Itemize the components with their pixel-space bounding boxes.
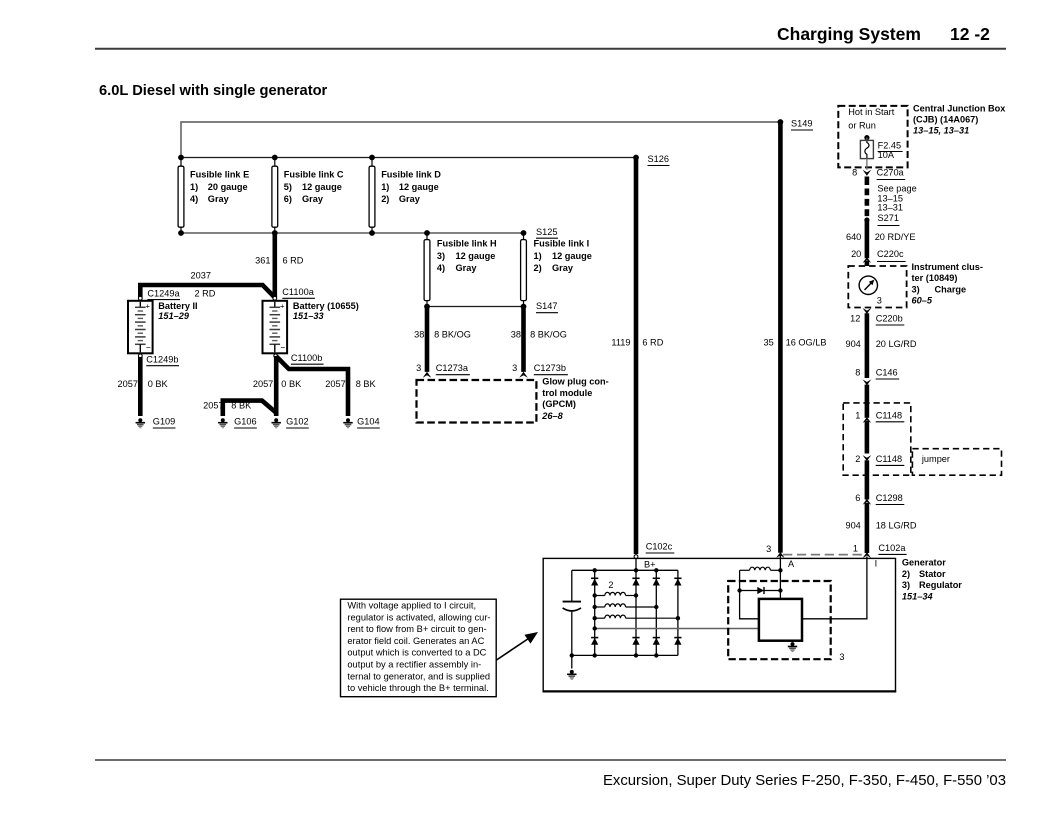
svg-text:C1249a: C1249a xyxy=(147,289,180,299)
jumper box xyxy=(912,449,1001,476)
svg-text:2057: 2057 xyxy=(118,379,138,389)
svg-text:Stator: Stator xyxy=(919,569,946,579)
svg-text:13–15, 13–31: 13–15, 13–31 xyxy=(913,126,969,136)
fusible link E xyxy=(178,160,249,234)
svg-text:C1273a: C1273a xyxy=(436,363,469,373)
wire rectifier bottom bus xyxy=(572,654,678,656)
svg-text:151–34: 151–34 xyxy=(902,591,933,601)
svg-text:output by a rectifier assembly: output by a rectifier assembly in- xyxy=(347,660,481,670)
wire stator to regulator (grey) xyxy=(595,628,759,630)
svg-text:Fusible link H: Fusible link H xyxy=(437,239,497,249)
fuse F2.45 xyxy=(860,135,902,170)
svg-text:C102a: C102a xyxy=(878,543,906,553)
svg-text:regulator is activated, allowi: regulator is activated, allowing cur- xyxy=(347,612,490,622)
wire 2037 2 RD xyxy=(140,285,274,298)
svg-text:F2.45: F2.45 xyxy=(878,141,902,151)
rectifier column 1 xyxy=(591,570,598,655)
ground G109 xyxy=(136,417,176,428)
svg-text:rent to flow from B+ circuit t: rent to flow from B+ circuit to gen- xyxy=(347,624,486,634)
svg-text:output which is converted to a: output which is converted to a DC xyxy=(347,648,486,658)
svg-text:With voltage applied to I circ: With voltage applied to I circuit, xyxy=(347,601,476,611)
svg-text:8 BK/OG: 8 BK/OG xyxy=(434,329,471,339)
wire: bus to S125 xyxy=(181,232,524,234)
svg-text:3): 3) xyxy=(912,284,920,294)
svg-text:8: 8 xyxy=(852,167,857,177)
svg-text:3): 3) xyxy=(902,580,910,590)
svg-text:38: 38 xyxy=(414,329,424,339)
svg-text:Fusible link I: Fusible link I xyxy=(534,239,590,249)
svg-text:Battery II: Battery II xyxy=(158,301,197,311)
wire dashed off-page to S271 xyxy=(865,177,870,186)
svg-text:151–29: 151–29 xyxy=(158,311,190,321)
wire S147 to C1273a xyxy=(425,307,430,372)
svg-text:3: 3 xyxy=(877,296,882,306)
svg-text:1): 1) xyxy=(381,182,389,192)
svg-text:or Run: or Run xyxy=(848,120,876,130)
wire dashed grey C102a tie xyxy=(783,554,865,556)
rectifier column 4 xyxy=(674,570,681,655)
svg-text:Central Junction Box: Central Junction Box xyxy=(913,103,1006,113)
svg-text:20 RD/YE: 20 RD/YE xyxy=(875,232,916,242)
svg-text:2): 2) xyxy=(381,194,389,204)
svg-text:trol module: trol module xyxy=(542,388,592,398)
connector C1148 pin 2 xyxy=(855,454,904,466)
svg-text:2: 2 xyxy=(608,580,613,590)
svg-text:2: 2 xyxy=(855,454,860,464)
svg-text:16 OG/LB: 16 OG/LB xyxy=(786,338,827,348)
svg-text:12 gauge: 12 gauge xyxy=(399,182,439,192)
wire: bus H-I to S147 xyxy=(427,306,524,308)
fusible link I xyxy=(521,233,592,307)
svg-text:S126: S126 xyxy=(648,154,669,164)
svg-text:1): 1) xyxy=(190,182,198,192)
svg-text:640: 640 xyxy=(846,232,861,242)
connector C1273a xyxy=(416,363,470,378)
svg-text:8 BK: 8 BK xyxy=(356,379,377,389)
svg-text:S271: S271 xyxy=(878,213,899,223)
svg-text:A: A xyxy=(788,559,795,569)
svg-text:0 BK: 0 BK xyxy=(281,379,302,389)
svg-text:C1298: C1298 xyxy=(876,493,903,503)
svg-text:5): 5) xyxy=(284,182,292,192)
connector C102a pin 1 xyxy=(853,543,907,558)
svg-text:Fusible link D: Fusible link D xyxy=(381,170,441,180)
node S147 xyxy=(521,301,558,313)
svg-text:12 -2: 12 -2 xyxy=(950,24,990,44)
wire 2057 0 BK center xyxy=(274,356,279,416)
svg-text:26–8: 26–8 xyxy=(541,411,563,421)
wire 2057 8 BK right branch xyxy=(276,356,348,416)
svg-text:2 RD: 2 RD xyxy=(195,289,216,299)
ground regulator xyxy=(788,642,797,651)
connector C1298 xyxy=(855,493,904,505)
ground G104 xyxy=(343,417,380,428)
generator labels xyxy=(902,558,962,602)
svg-text:8: 8 xyxy=(855,368,860,378)
connector C1273b xyxy=(512,363,568,378)
svg-text:3: 3 xyxy=(416,363,421,373)
junction dots rectifier xyxy=(570,568,681,658)
node D bottom xyxy=(369,230,375,236)
wire field coil left leg xyxy=(740,570,759,619)
connector C102c xyxy=(634,542,674,559)
connector C1249a xyxy=(138,289,180,301)
svg-text:1119: 1119 xyxy=(611,338,630,348)
svg-text:Excursion, Super Duty Series F: Excursion, Super Duty Series F-250, F-35… xyxy=(603,773,1006,789)
instrument cluster labels xyxy=(912,262,983,306)
svg-text:8 BK/OG: 8 BK/OG xyxy=(530,329,567,339)
fusible link H xyxy=(424,233,497,307)
svg-text:8 BK: 8 BK xyxy=(231,400,252,410)
header xyxy=(95,24,1006,49)
svg-text:Gray: Gray xyxy=(208,194,230,204)
wire pin1 to pin2 xyxy=(865,421,870,454)
svg-text:2): 2) xyxy=(534,263,542,273)
fusible link D xyxy=(369,160,441,234)
svg-text:361: 361 xyxy=(255,256,270,266)
node S125 xyxy=(521,227,558,238)
svg-text:3): 3) xyxy=(437,251,445,261)
node H top xyxy=(424,230,430,236)
stator coil 1 xyxy=(595,592,636,595)
wire 361 6 RD xyxy=(272,233,277,298)
node C top xyxy=(272,155,278,161)
connector C1100b xyxy=(274,353,324,364)
svg-text:12: 12 xyxy=(850,314,860,324)
connector C1148 pin 1 xyxy=(855,410,904,423)
svg-text:4): 4) xyxy=(190,194,198,204)
svg-text:1): 1) xyxy=(534,251,542,261)
svg-text:151–33: 151–33 xyxy=(293,311,324,321)
generator box xyxy=(543,558,895,691)
wire: top bus S149 xyxy=(181,122,780,158)
connector C220b xyxy=(850,308,904,325)
svg-text:2057: 2057 xyxy=(253,379,273,389)
note arrow xyxy=(497,632,539,660)
svg-text:2037: 2037 xyxy=(191,270,211,280)
regulator block xyxy=(759,599,802,641)
regulator dashed box xyxy=(728,581,831,659)
field coil xyxy=(740,567,783,572)
wire 35 16 OG/LB (S149 to C102a pin3) xyxy=(778,122,783,553)
battery B2 (Battery 10655) xyxy=(263,301,359,354)
wire 640 20 RD/YE xyxy=(865,220,870,258)
wire 2057 0 BK left xyxy=(138,357,143,416)
diode field xyxy=(737,587,782,594)
wire S125 to S147 link I column, then to C1273b xyxy=(521,307,526,372)
svg-text:Hot in Start: Hot in Start xyxy=(848,107,894,117)
wire 2057 8 BK left branch xyxy=(223,401,276,416)
svg-text:35: 35 xyxy=(763,338,773,348)
GPCM box xyxy=(417,376,609,422)
wire cap to internal ground xyxy=(571,655,573,668)
wire: bus to S126 xyxy=(181,157,636,159)
svg-text:3: 3 xyxy=(839,652,844,662)
connector C1100a xyxy=(273,287,315,300)
svg-text:20 gauge: 20 gauge xyxy=(208,182,248,192)
svg-text:Battery (10655): Battery (10655) xyxy=(293,301,359,311)
svg-text:2): 2) xyxy=(902,569,910,579)
svg-text:G106: G106 xyxy=(234,417,256,427)
svg-text:G102: G102 xyxy=(286,417,308,427)
svg-text:Fusible link C: Fusible link C xyxy=(284,170,344,180)
svg-text:B+: B+ xyxy=(644,559,656,569)
C1148 dashed box xyxy=(843,403,911,475)
svg-text:3: 3 xyxy=(766,544,771,554)
node S149 xyxy=(778,119,814,131)
svg-text:C1273b: C1273b xyxy=(534,363,566,373)
svg-text:3: 3 xyxy=(512,363,517,373)
svg-text:C1100a: C1100a xyxy=(282,287,314,297)
svg-text:6 RD: 6 RD xyxy=(283,256,304,266)
connector C270a xyxy=(852,167,905,179)
node S126 xyxy=(633,154,669,166)
svg-text:20: 20 xyxy=(851,249,861,259)
svg-text:C102c: C102c xyxy=(646,542,673,552)
ground generator case xyxy=(567,670,576,679)
svg-text:1: 1 xyxy=(855,410,860,420)
wire pin2 to C1298 xyxy=(865,460,870,499)
svg-text:(GPCM): (GPCM) xyxy=(542,399,576,409)
ground G106 xyxy=(218,417,257,428)
svg-text:0 BK: 0 BK xyxy=(148,379,169,389)
svg-text:Glow plug con-: Glow plug con- xyxy=(542,376,608,386)
wire 1119 6 RD (S126 to C102c) xyxy=(634,158,639,555)
svg-text:12 gauge: 12 gauge xyxy=(552,251,592,261)
svg-text:C1100b: C1100b xyxy=(291,353,323,363)
svg-text:(CJB) (14A067): (CJB) (14A067) xyxy=(913,114,978,124)
wire A drop xyxy=(779,555,781,599)
fusible link C xyxy=(272,160,344,234)
wire rectifier top bus xyxy=(572,569,678,571)
connector C102a pin 3 arrow xyxy=(766,544,785,558)
svg-text:C1249b: C1249b xyxy=(146,355,178,365)
node H bottom xyxy=(424,304,430,310)
svg-text:Instrument clus-: Instrument clus- xyxy=(912,262,983,272)
svg-text:G104: G104 xyxy=(357,417,379,427)
svg-text:C146: C146 xyxy=(876,368,898,378)
rectifier column 3 xyxy=(653,570,660,655)
node D top xyxy=(369,155,375,161)
svg-text:C220c: C220c xyxy=(877,249,904,259)
svg-text:10A: 10A xyxy=(878,150,895,160)
svg-text:60–5: 60–5 xyxy=(912,296,933,306)
svg-text:C1148: C1148 xyxy=(876,454,902,464)
svg-text:2057: 2057 xyxy=(203,400,223,410)
wire pin3 into generator xyxy=(779,554,781,558)
wire C146 to C1148 xyxy=(865,385,870,418)
svg-text:12 gauge: 12 gauge xyxy=(302,182,342,192)
svg-text:G109: G109 xyxy=(153,417,175,427)
svg-text:to vehicle through the B+ term: to vehicle through the B+ terminal. xyxy=(347,683,488,693)
svg-text:Regulator: Regulator xyxy=(919,580,962,590)
svg-text:Gray: Gray xyxy=(399,194,421,204)
CJB labels xyxy=(913,103,1006,135)
svg-text:904: 904 xyxy=(845,521,860,531)
capacitor C xyxy=(563,570,581,655)
stator coil 2 xyxy=(595,604,657,607)
svg-text:S147: S147 xyxy=(536,301,557,311)
svg-text:12 gauge: 12 gauge xyxy=(456,251,496,261)
rectifier column 2 xyxy=(632,570,639,655)
svg-text:Charge: Charge xyxy=(935,284,967,294)
svg-text:904: 904 xyxy=(845,339,860,349)
svg-text:38: 38 xyxy=(511,329,521,339)
svg-text:6): 6) xyxy=(284,194,292,204)
svg-text:18 LG/RD: 18 LG/RD xyxy=(876,521,917,531)
svg-text:2057: 2057 xyxy=(325,379,345,389)
wire 904 20 LG/RD xyxy=(865,313,870,378)
svg-text:C1148: C1148 xyxy=(876,410,902,420)
connector C220c xyxy=(851,249,906,263)
CJB box xyxy=(838,106,907,167)
svg-text:ter (10849): ter (10849) xyxy=(912,273,958,283)
svg-text:4): 4) xyxy=(437,263,445,273)
stator coil 3 xyxy=(595,615,678,618)
node E bottom xyxy=(178,230,184,236)
node S271 xyxy=(864,213,899,225)
svg-text:6 RD: 6 RD xyxy=(642,338,663,348)
connector C146 xyxy=(855,368,899,386)
svg-text:Gray: Gray xyxy=(302,194,324,204)
svg-text:C270a: C270a xyxy=(877,168,905,178)
ground G102 xyxy=(272,417,309,428)
svg-text:S125: S125 xyxy=(536,227,557,237)
svg-text:20 LG/RD: 20 LG/RD xyxy=(876,339,917,349)
svg-text:13–31: 13–31 xyxy=(877,203,903,213)
svg-text:erator field coil. Generates a: erator field coil. Generates an AC xyxy=(347,636,484,646)
wire stub into cluster xyxy=(865,261,870,266)
svg-text:S149: S149 xyxy=(791,119,812,129)
svg-text:See page: See page xyxy=(877,184,916,194)
svg-text:6: 6 xyxy=(855,493,860,503)
svg-text:Fusible link E: Fusible link E xyxy=(190,170,249,180)
note box xyxy=(341,599,497,697)
svg-text:1: 1 xyxy=(853,543,858,553)
battery B1 (Battery II) xyxy=(128,301,198,354)
wire 904 18 LG/RD xyxy=(865,503,870,553)
connector C1249b xyxy=(138,354,179,366)
wire I leg xyxy=(802,557,867,619)
node C bottom xyxy=(272,230,278,236)
instrument cluster box xyxy=(848,266,906,308)
svg-text:Gray: Gray xyxy=(456,263,478,273)
svg-text:jumper: jumper xyxy=(921,454,950,464)
svg-text:ternal to generator, and is su: ternal to generator, and is supplied xyxy=(347,671,490,681)
node E top xyxy=(178,155,184,161)
wire B+ drop xyxy=(635,558,637,570)
svg-text:Charging System: Charging System xyxy=(777,24,921,44)
svg-text:Generator: Generator xyxy=(902,558,946,568)
svg-text:C220b: C220b xyxy=(876,314,903,324)
footer xyxy=(95,760,1006,789)
svg-text:Gray: Gray xyxy=(552,263,574,273)
svg-text:6.0L Diesel with single genera: 6.0L Diesel with single generator xyxy=(99,83,328,99)
svg-text:I: I xyxy=(875,558,878,568)
